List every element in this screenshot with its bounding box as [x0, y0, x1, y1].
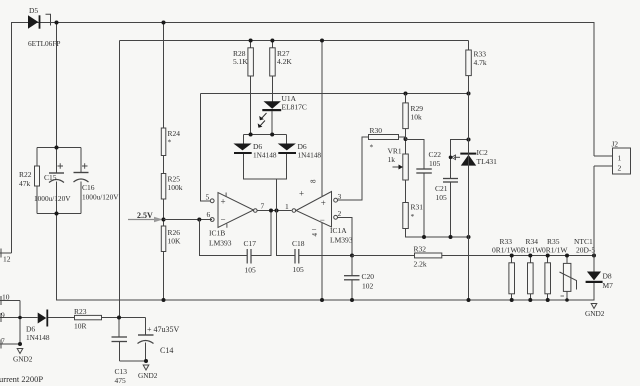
svg-text:C14: C14 [160, 346, 173, 355]
wire R31 bottom to block bottom bus [406, 229, 469, 238]
wire sense line y=93.5 [201, 93, 469, 95]
wire IC1A pin3 to R30 [338, 137, 369, 200]
connector J2 [612, 140, 631, 175]
node dot cap bottom [55, 212, 59, 216]
wire divider chain x=163.5 [163, 23, 165, 301]
resistor R32 [414, 245, 442, 269]
svg-text:C20: C20 [362, 272, 375, 281]
wire C17 left branch [199, 220, 247, 256]
node dot output/C17 [269, 209, 273, 213]
svg-text:5.1K: 5.1K [233, 57, 248, 66]
svg-text:9: 9 [1, 311, 5, 320]
wire R33 stubs [468, 41, 470, 301]
wire C18 right to R32 node [299, 255, 352, 257]
diode D6 bottom-left 1N4148 [26, 310, 50, 343]
svg-text:1: 1 [285, 202, 289, 211]
resistor R27 [270, 48, 293, 76]
wire center x=56.4 from top rail to C15 [56, 23, 58, 174]
svg-text:1N4148: 1N4148 [253, 151, 277, 160]
node dot NTC bottom [565, 298, 569, 302]
svg-text:C13: C13 [115, 367, 128, 376]
svg-text:3: 3 [338, 192, 342, 201]
svg-text:LM393: LM393 [330, 236, 353, 245]
svg-text:2.2k: 2.2k [414, 260, 427, 269]
node dot R23/C13/C14 [117, 316, 121, 320]
diode D6 pair left 1N4148 [233, 142, 276, 160]
svg-text:R23: R23 [74, 307, 87, 316]
svg-text:4: 4 [311, 233, 319, 237]
svg-text:IC1A: IC1A [330, 226, 347, 235]
svg-text:20D-5: 20D-5 [576, 246, 595, 255]
capacitor C20 [344, 256, 374, 301]
capacitor C15 [34, 163, 71, 203]
svg-text:+: + [299, 189, 304, 199]
resistor R33 0R1/1W [492, 237, 518, 294]
opto LED U1A EL817C [258, 94, 307, 128]
resistor R31 [403, 203, 423, 229]
shunt regulator IC2 TL431 [452, 94, 498, 167]
wire rail drop x=119.5 down to R23 node [119, 41, 121, 318]
node dot C17 tap on pin6 wire [197, 218, 201, 222]
node dot D8 top [592, 254, 596, 258]
wire C22 bottom [423, 174, 425, 238]
resistor R35 0R1/1W [542, 237, 568, 294]
wire C22 branch top [406, 140, 425, 169]
svg-text:*: * [168, 138, 172, 147]
resistor R28 [233, 48, 253, 76]
potentiometer VR1 1k [388, 147, 409, 181]
svg-text:GND2: GND2 [585, 309, 605, 318]
wire R29 stubs [405, 94, 407, 155]
capacitor C21 [435, 179, 458, 203]
node dot R29/R30/VR1 [404, 137, 408, 141]
wire IC1B pin5 up to sense line [201, 94, 211, 201]
svg-text:C18: C18 [292, 239, 305, 248]
capacitor C16 [74, 163, 120, 201]
wire pin 12 stub [0, 249, 12, 258]
node dot IC1A V+ top [320, 39, 324, 43]
svg-text:1000u/120V: 1000u/120V [82, 193, 119, 202]
svg-text:0R1/1W: 0R1/1W [517, 246, 543, 255]
ground GND2 under C14 [138, 365, 158, 380]
svg-text:C15: C15 [44, 173, 57, 182]
svg-text:105: 105 [293, 265, 305, 274]
wire TL431 ref loop [451, 140, 469, 179]
resistor R22 [19, 166, 40, 188]
wire second rail (after R23) [120, 40, 469, 42]
wire R28 stubs [250, 41, 252, 135]
node dot cap top [55, 146, 59, 150]
resistor R26 [161, 226, 181, 252]
node dot LED bottom [270, 133, 274, 137]
resistor R29 [403, 103, 423, 129]
wire R23 to node [102, 317, 120, 319]
diode D8 M7 [586, 256, 614, 301]
svg-text:0R1/1W: 0R1/1W [542, 246, 568, 255]
node dot sense/R33-4.7k [467, 92, 471, 96]
wire R32 right to output header bus [442, 255, 594, 257]
svg-text:5: 5 [206, 193, 210, 202]
resistor R24 [161, 128, 180, 156]
wire C16 stubs [80, 148, 82, 214]
capacitor C13 [112, 337, 128, 385]
svg-text:4.2K: 4.2K [277, 57, 292, 66]
op-amp IC1A LM393 [292, 179, 353, 245]
svg-text:R30: R30 [370, 126, 383, 135]
svg-text:IC2: IC2 [477, 148, 489, 157]
svg-text:J2: J2 [612, 140, 619, 149]
svg-text:C16: C16 [82, 183, 95, 192]
wire diode pair top bus [243, 135, 286, 144]
node dot rail TL431 [467, 298, 471, 302]
wire top rail right drop to J2 [594, 23, 613, 157]
svg-text:1k: 1k [388, 155, 396, 164]
wire gnd bus left connector [19, 301, 21, 345]
svg-text:12: 12 [3, 255, 11, 264]
wire diode pair bottom loop [243, 154, 295, 256]
node dot gnd bus pin7 [18, 342, 22, 346]
svg-text:+: + [221, 197, 226, 207]
wire pin10 stub [0, 296, 20, 305]
op-amp IC1B LM393 [206, 193, 258, 248]
wire cap group top [37, 147, 81, 149]
wire R32 left [352, 255, 415, 257]
wire pin7 stub [0, 340, 20, 349]
node dot rail C20 [350, 298, 354, 302]
svg-text:C22: C22 [429, 150, 442, 159]
node dot R28 top [249, 39, 253, 43]
wire R27 stub top [271, 41, 273, 48]
wire IC1A V+ pin8 [321, 41, 323, 197]
node dot C22 bottom [422, 235, 426, 239]
capacitor C17 [244, 239, 257, 275]
svg-text:10R: 10R [74, 322, 87, 331]
diode D6 pair right 1N4148 [278, 142, 322, 160]
svg-text:urrent 2200P: urrent 2200P [0, 374, 43, 384]
node dots 0R tops [510, 254, 514, 258]
node dot 2.5V junction [162, 218, 166, 222]
node dot rail x163 bottom [162, 298, 166, 302]
svg-text:7: 7 [261, 202, 265, 211]
svg-text:EL817C: EL817C [282, 103, 307, 112]
svg-text:10k: 10k [411, 113, 423, 122]
wire pin6 line to IC1B [164, 219, 212, 221]
svg-text:TL431: TL431 [477, 157, 498, 166]
svg-text:8: 8 [310, 179, 318, 183]
capacitor C22 [416, 150, 441, 173]
resistor R33 4.7k [466, 50, 487, 76]
svg-text:D8: D8 [603, 272, 612, 281]
wire C15 bottom to ground rail corner [57, 182, 595, 301]
svg-text:105: 105 [436, 193, 448, 202]
svg-text:105: 105 [245, 266, 257, 275]
node dot TL431 ref [449, 156, 453, 160]
node dot top rail x163 [162, 21, 166, 25]
svg-text:GND2: GND2 [13, 355, 33, 364]
wire cap group bottom [37, 213, 81, 215]
svg-text:475: 475 [115, 376, 127, 385]
node dot R28 bottom [249, 133, 253, 137]
svg-text:+: + [321, 198, 326, 208]
node dot top rail x56 [55, 21, 59, 25]
node dot rail IC1A pin4 [320, 298, 324, 302]
node dot R27 top [270, 39, 274, 43]
svg-text:2: 2 [338, 209, 342, 218]
svg-text:1N4148: 1N4148 [298, 151, 322, 160]
wire C17 right to output node [251, 211, 271, 256]
node dot sense/R29 [404, 92, 408, 96]
svg-text:47k: 47k [19, 179, 31, 188]
wire pin9 stub [0, 313, 38, 322]
svg-text:2: 2 [618, 164, 622, 173]
resistor R23 [74, 307, 102, 331]
svg-text:D5: D5 [29, 6, 38, 15]
svg-text:*: * [411, 212, 415, 221]
wire C21 bottom [450, 183, 452, 238]
capacitor C18 [292, 239, 305, 274]
svg-text:105: 105 [429, 159, 441, 168]
wire node to C14 top [119, 318, 146, 336]
wire LED cathode down [271, 111, 273, 134]
varistor NTC1 20D-5 [560, 237, 596, 300]
wire IC1A pin2 down to rail [338, 217, 353, 255]
svg-text:LM393: LM393 [209, 239, 232, 248]
resistor R34 0R1/1W [517, 237, 543, 294]
svg-text:*: * [370, 143, 374, 152]
wire C13/C14 bottom [120, 343, 147, 362]
wire J2 pin2 to D8 [594, 166, 613, 256]
svg-text:6: 6 [207, 210, 211, 219]
node dot C21 bottom [449, 235, 453, 239]
node dot output/diode-pair [275, 209, 279, 213]
svg-text:+ 47u35V: + 47u35V [147, 325, 180, 334]
svg-text:C17: C17 [244, 239, 257, 248]
wire R22 stubs [36, 148, 38, 214]
svg-text:M7: M7 [603, 281, 614, 290]
node dot NTC top [565, 254, 569, 258]
wire R30 right to node [399, 137, 406, 139]
svg-text:4.7k: 4.7k [474, 58, 487, 67]
ground GND2 left [13, 349, 33, 364]
node 2.5V entry arrow [128, 211, 163, 222]
wire R27 to LED [271, 76, 273, 101]
node dots 0R bottoms [510, 298, 514, 302]
svg-text:1N4148: 1N4148 [26, 333, 50, 342]
wire D6b cathode to R23 [48, 317, 75, 319]
svg-text:7: 7 [1, 337, 5, 346]
resistor R30 [369, 126, 399, 152]
node dot block bus / TL431 anode [467, 235, 471, 239]
diode D5 [28, 6, 60, 48]
svg-text:IC1B: IC1B [209, 229, 225, 238]
svg-text:1000u/120V: 1000u/120V [34, 194, 71, 203]
node dot C14 bottom [144, 359, 148, 363]
svg-text:10K: 10K [168, 237, 182, 246]
wire TL431 anode down to ground rail [468, 166, 470, 300]
svg-text:10: 10 [2, 293, 10, 302]
capacitor C14 electrolytic [138, 325, 180, 355]
wire 0R resistor stubs [512, 256, 548, 301]
svg-text:GND2: GND2 [138, 371, 158, 380]
svg-text:−: − [312, 225, 317, 235]
resistor R25 [161, 174, 182, 200]
svg-text:6ETL06FP: 6ETL06FP [28, 39, 60, 48]
svg-text:100k: 100k [168, 183, 183, 192]
svg-text:1: 1 [618, 154, 622, 163]
svg-text:R32: R32 [414, 245, 427, 254]
node dot TL431 cathode junction [467, 138, 471, 142]
wire top rail VCC1 [11, 22, 595, 24]
svg-text:102: 102 [362, 282, 374, 291]
svg-text:2.5V: 2.5V [137, 211, 153, 220]
svg-text:−: − [221, 215, 226, 225]
wire VR1 to R31 [405, 180, 407, 203]
ground GND2 right [585, 304, 605, 319]
node dot pin2/C20/R32 [350, 254, 354, 258]
wire left drop to pin 12 [11, 23, 13, 254]
wire C13 verticals [118, 318, 121, 362]
node dot gnd bus pin9 [18, 316, 22, 320]
wire IC1A pin4 to ground rail [321, 223, 323, 300]
wire comparator output bus [257, 210, 291, 212]
svg-text:R31: R31 [411, 203, 424, 212]
svg-text:C21: C21 [435, 184, 448, 193]
svg-text:R22: R22 [19, 170, 32, 179]
svg-text:0R1/1W: 0R1/1W [492, 246, 518, 255]
